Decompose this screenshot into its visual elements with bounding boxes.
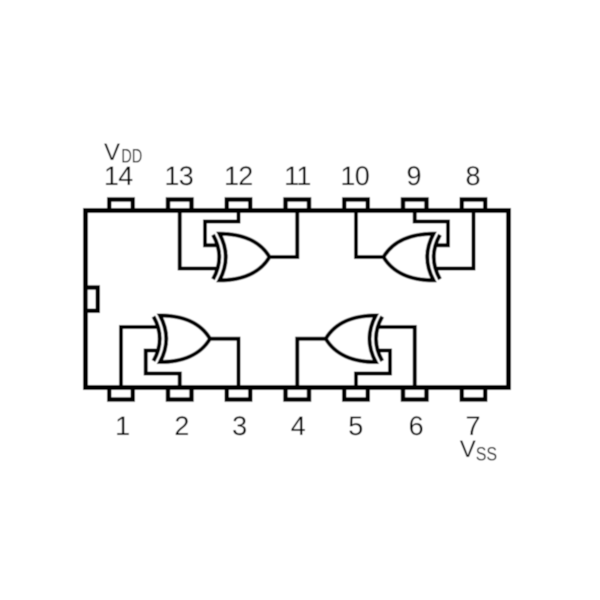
pin 3 stub [227,385,251,400]
svg-text:5: 5 [348,411,363,441]
wire pin6 to gate D upper input [378,327,415,385]
pin 7 stub [462,385,486,400]
xor gate C input arc [154,317,160,362]
svg-text:8: 8 [465,161,480,191]
svg-text:4: 4 [291,411,306,441]
svg-text:2: 2 [174,411,189,441]
wire pin1 to gate C upper input [121,327,158,385]
pin 1 stub [109,385,133,400]
pin 8 stub [462,200,486,214]
pin 14 stub [109,200,133,214]
xor gate A body (top-left, faces right) [220,234,270,281]
svg-text:SS: SS [476,443,497,465]
svg-text:DD: DD [121,146,142,167]
xor gate A input arc [213,235,219,280]
xor gate C body (bottom-left, faces right) [160,316,210,363]
wire pin8 to gate B lower input [436,213,474,269]
pin-1 index notch on left edge [86,288,98,311]
svg-text:13: 13 [164,161,193,191]
pin 13 stub [168,200,192,214]
pin 9 stub [403,200,427,214]
xor gate D body (bottom-right, faces left) [326,316,376,363]
svg-text:1: 1 [115,411,130,441]
svg-text:V: V [460,436,476,463]
wire gate D output to pin4 [297,339,327,385]
pin 6 stub [403,385,427,400]
svg-text:9: 9 [406,161,421,191]
pin 2 stub [168,385,192,400]
xor gate D input arc [376,317,382,362]
svg-text:V: V [104,139,120,166]
wire pin9 to gate B upper input [415,213,448,245]
svg-text:3: 3 [232,411,247,441]
svg-text:10: 10 [340,161,369,191]
IC body U1 (DIP-14 outline) [86,211,509,388]
wire gate C output to pin3 [209,339,239,385]
wire pin13 to gate A lower input [180,213,217,269]
pin 5 stub [344,385,368,400]
xor gate B input arc [434,235,440,280]
svg-text:11: 11 [284,161,311,191]
pin 11 stub [286,200,310,214]
svg-text:6: 6 [409,411,424,441]
wire pin2 to gate C lower input [146,351,180,386]
pin 4 stub [286,385,310,400]
wire pin5 to gate D lower input [356,351,390,386]
pin 12 stub [227,200,251,214]
svg-text:12: 12 [224,161,253,191]
wire gate A output to pin11 [268,213,297,257]
wire gate B output to pin10 [356,213,385,257]
wire pin12 to gate A upper input [205,213,239,245]
pin 10 stub [344,200,368,214]
xor gate B body (top-right, faces left) [384,234,434,281]
